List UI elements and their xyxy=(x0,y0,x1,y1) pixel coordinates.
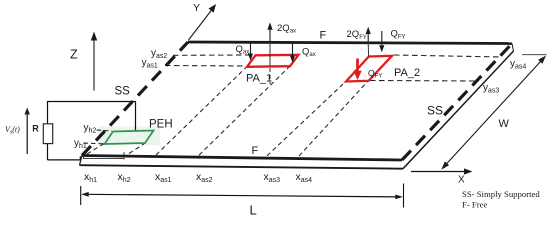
svg-text:SS- Simply Supported: SS- Simply Supported xyxy=(462,189,540,199)
svg-text:SS: SS xyxy=(115,86,131,98)
W extension line xyxy=(522,54,547,56)
PA_2 corner line xyxy=(367,42,369,57)
dashed line y_h1 xyxy=(84,142,104,145)
plate back right corner thickness xyxy=(512,44,514,52)
svg-text:SS: SS xyxy=(427,104,443,118)
arrow 2Q_ax up xyxy=(269,29,271,42)
wire circuit top xyxy=(48,102,136,160)
resistor R1 xyxy=(43,124,52,144)
dashed line y_as3 xyxy=(370,80,477,83)
svg-text:PA_1: PA_1 xyxy=(246,73,272,85)
arrow Q_ax left down xyxy=(250,43,252,54)
plate bottom front edge xyxy=(80,165,404,169)
dimension L right tick xyxy=(403,184,405,208)
plate left corner thickness xyxy=(80,156,83,166)
projection line x_as2 xyxy=(199,66,290,155)
bracket x_h1-x_h2 xyxy=(84,157,125,159)
projection line x_h1 xyxy=(87,144,104,155)
svg-text:Y: Y xyxy=(193,2,200,14)
svg-text:Z: Z xyxy=(70,48,78,62)
wire junction at plate corner xyxy=(79,156,81,160)
svg-text:W: W xyxy=(499,118,510,130)
arrow 2Q_FY up xyxy=(367,34,369,42)
svg-text:R: R xyxy=(32,123,39,133)
projection line x_as3 xyxy=(267,81,346,156)
axis X xyxy=(411,171,465,173)
projection line x_as4 xyxy=(299,81,369,157)
svg-text:PEH: PEH xyxy=(149,119,173,131)
PEH patch xyxy=(105,131,154,145)
bracket left tick xyxy=(83,156,85,159)
actuator PA_2 xyxy=(346,56,392,82)
svg-text:F- Free: F- Free xyxy=(462,200,487,210)
PEH highlight patch xyxy=(98,127,160,146)
svg-text:F: F xyxy=(320,30,327,42)
wire circuit bottom xyxy=(48,159,81,161)
plate front edge (F) xyxy=(82,156,402,161)
plate right edge (SS, dashed) xyxy=(402,44,512,161)
PA_1 centre line dashed xyxy=(269,68,271,84)
svg-text:F: F xyxy=(252,145,259,157)
source Vs(t) arrow xyxy=(26,113,28,154)
svg-text:Vs(t): Vs(t) xyxy=(5,125,20,136)
svg-text:L: L xyxy=(250,203,257,218)
tick x_h2 xyxy=(123,152,125,160)
dashed line y_as4 xyxy=(394,55,502,57)
plate back edge (F) xyxy=(188,42,512,44)
dashed line y_h2 xyxy=(97,130,113,131)
dashed line y_as1 xyxy=(165,65,246,68)
actuator PA_1 xyxy=(247,55,299,67)
plate top face xyxy=(82,42,512,160)
dimension W line xyxy=(444,59,543,167)
arrow Q_FY down xyxy=(381,31,383,46)
svg-text:X: X xyxy=(458,175,465,186)
PA_1 centre line solid xyxy=(269,42,271,67)
red force arrow Q_FY on PA_2 xyxy=(356,59,359,72)
axis Z xyxy=(93,39,95,91)
arrow Q_ax right down xyxy=(292,43,294,56)
dimension L left tick xyxy=(80,186,82,205)
projection line x_as1 xyxy=(156,67,247,156)
projection line x_h2 xyxy=(129,143,146,154)
plate bottom right edge xyxy=(403,51,514,169)
axis Y xyxy=(189,10,213,41)
plate left edge (SS, dashed) xyxy=(82,42,188,156)
dimension L line xyxy=(83,194,401,197)
svg-text:PA_2: PA_2 xyxy=(394,67,420,79)
dashed line y_as2 xyxy=(173,54,251,56)
